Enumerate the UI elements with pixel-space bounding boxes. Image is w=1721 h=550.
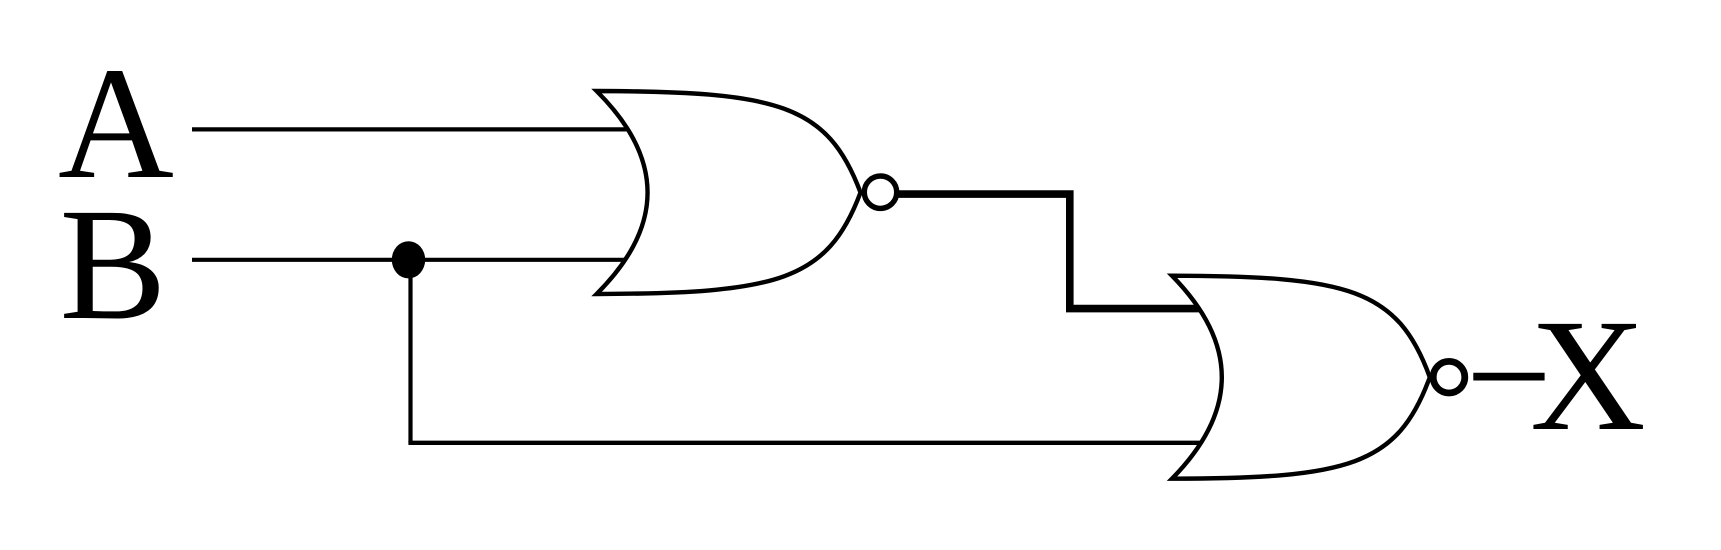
svg-text:X: X — [1530, 286, 1646, 464]
svg-text:B: B — [60, 175, 167, 353]
wire A to gate U1 — [192, 127, 660, 131]
NOR gate U1 inversion bubble — [864, 176, 896, 208]
wire U2 output to X (thick) — [1473, 373, 1544, 381]
wire B branch horizontal to gate U2 — [408, 441, 1235, 445]
wire U1 output to U2 input (thick) — [899, 194, 1241, 309]
wire B branch vertical — [408, 260, 412, 443]
NOR gate U2 body — [1172, 276, 1430, 479]
NOR gate U1 body — [597, 91, 861, 294]
wire B to gate U1 — [192, 258, 660, 262]
NOR gate U2 inversion bubble — [1433, 361, 1465, 393]
junction dot on B — [392, 241, 425, 278]
